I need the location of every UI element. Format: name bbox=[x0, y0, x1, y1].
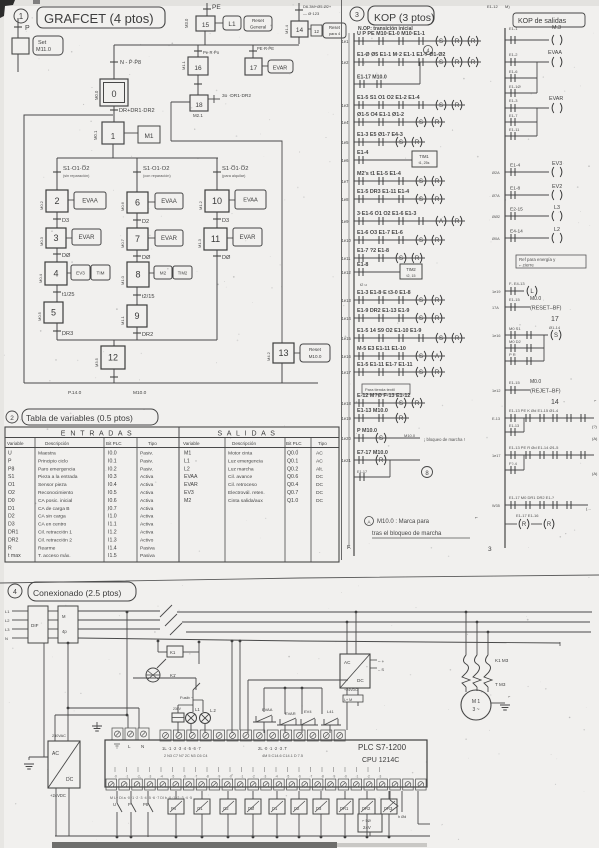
svg-text:R: R bbox=[435, 370, 440, 376]
svg-text:U P PE M10·E1-0 M10·E1-1: U P PE M10·E1-0 M10·E1-1 bbox=[357, 31, 425, 37]
svg-text:·4: ·4 bbox=[160, 775, 163, 779]
transition D3 below step 2 bbox=[56, 212, 58, 228]
svg-text:t2 u: t2 u bbox=[360, 282, 367, 287]
svg-text:15: 15 bbox=[202, 22, 210, 29]
svg-text:M0.0: M0.0 bbox=[530, 379, 541, 385]
svg-text:PLC S7-1200: PLC S7-1200 bbox=[358, 743, 407, 752]
svg-text:R: R bbox=[435, 120, 440, 126]
branch down to step 17 with transition PE R PE bbox=[252, 45, 254, 58]
svg-text:M-5 E3 E1-11 E1-10: M-5 E3 E1-11 E1-10 bbox=[357, 346, 406, 352]
svg-text:1: 1 bbox=[19, 12, 24, 21]
svg-text:KOP de salidas: KOP de salidas bbox=[518, 18, 567, 25]
auto contact symbol circle bbox=[146, 668, 160, 682]
svg-text:Sensor pieza: Sensor pieza bbox=[38, 482, 67, 488]
svg-text:S: S bbox=[439, 60, 443, 66]
extra wire drop to terminal 4 bbox=[231, 640, 234, 643]
svg-text:E1-13 PE R Ød E1-14 Ø1-5: E1-13 PE R Ød E1-14 Ø1-5 bbox=[509, 445, 559, 450]
svg-text:+24VDC: +24VDC bbox=[50, 793, 66, 798]
svg-text:·1: ·1 bbox=[241, 775, 244, 779]
svg-text:17A: 17A bbox=[492, 306, 499, 310]
wire from K1 down and across bbox=[133, 677, 196, 679]
svg-text:R: R bbox=[435, 179, 440, 185]
svg-text:M.3: M.3 bbox=[552, 25, 561, 31]
svg-text:1e6: 1e6 bbox=[342, 158, 350, 163]
K1 contactor coil circuit bbox=[157, 640, 160, 643]
svg-text:Tipo: Tipo bbox=[318, 441, 327, 446]
svg-text:Alt.: Alt. bbox=[316, 466, 323, 472]
svg-text:M0.0: M0.0 bbox=[530, 296, 541, 302]
svg-text:E1-7: E1-7 bbox=[509, 113, 518, 118]
svg-text:S: S bbox=[379, 436, 383, 442]
svg-text:R: R bbox=[435, 238, 440, 244]
motor branch taps bbox=[465, 611, 468, 614]
section divider vertical line bbox=[341, 0, 343, 560]
svg-text:M0.2: M0.2 bbox=[39, 200, 44, 210]
svg-text:K1': K1' bbox=[170, 673, 176, 678]
svg-text:Variable: Variable bbox=[183, 441, 200, 446]
svg-text:DØ: DØ bbox=[222, 255, 231, 261]
svg-text:2L ·0 ·1 ·2 ·3 .T: 2L ·0 ·1 ·2 ·3 .T bbox=[258, 746, 287, 751]
svg-text:DR2: DR2 bbox=[362, 806, 371, 811]
svg-text:Activa: Activa bbox=[140, 482, 154, 488]
svg-text:13: 13 bbox=[278, 348, 288, 358]
svg-text:AC: AC bbox=[316, 451, 323, 457]
svg-text:R: R bbox=[455, 39, 460, 45]
svg-text:Q0.2: Q0.2 bbox=[287, 466, 298, 472]
svg-text:S: S bbox=[419, 197, 423, 203]
svg-text:CA de carga B: CA de carga B bbox=[38, 506, 70, 512]
svg-text:Electrovál. reten.: Electrovál. reten. bbox=[228, 490, 265, 496]
branch 2 condition S1 O1 O2 bbox=[136, 158, 138, 192]
bottom scan shadow band bbox=[52, 842, 337, 848]
svg-text:T M3: T M3 bbox=[495, 682, 506, 687]
svg-text:Cinta salida/aux: Cinta salida/aux bbox=[228, 498, 263, 504]
neutral line bbox=[78, 638, 560, 643]
svg-text:(RESET–BF): (RESET–BF) bbox=[530, 306, 562, 312]
svg-text:Q0.7: Q0.7 bbox=[287, 490, 298, 496]
right supply bottom terminals bbox=[346, 688, 348, 695]
transition DR2 below step 9 bbox=[136, 327, 138, 340]
svg-text:·0: ·0 bbox=[229, 775, 232, 779]
svg-text:t max: t max bbox=[8, 553, 21, 559]
svg-text:D2: D2 bbox=[8, 514, 15, 520]
svg-text:DC: DC bbox=[66, 777, 74, 783]
svg-text:0: 0 bbox=[111, 89, 116, 99]
svg-text:S: S bbox=[399, 256, 403, 262]
transition t1/25 below step 4 bbox=[56, 285, 58, 302]
input sensor boxes row bbox=[168, 799, 184, 814]
svg-text:9: 9 bbox=[134, 311, 139, 321]
svg-text:EVAA: EVAA bbox=[184, 474, 198, 480]
svg-text:EV3: EV3 bbox=[76, 271, 85, 276]
svg-text:TIM1: TIM1 bbox=[419, 154, 429, 159]
svg-text:O2: O2 bbox=[8, 490, 15, 496]
valve wires to terminals bbox=[263, 722, 265, 733]
svg-text:F.: F. bbox=[347, 545, 352, 551]
svg-text:L41: L41 bbox=[327, 709, 334, 714]
transition D0 below step 11 bbox=[216, 250, 218, 340]
svg-text:M2.1: M2.1 bbox=[193, 113, 203, 118]
svg-text:EVAR: EVAR bbox=[184, 482, 198, 488]
svg-text:Cil. retracción 1: Cil. retracción 1 bbox=[38, 530, 72, 536]
svg-text:S: S bbox=[399, 140, 403, 146]
svg-text:M10.0 : Marca para: M10.0 : Marca para bbox=[377, 519, 430, 525]
svg-text:TIM2: TIM2 bbox=[178, 271, 188, 276]
svg-text:17: 17 bbox=[250, 65, 258, 72]
svg-text:·1: ·1 bbox=[126, 775, 129, 779]
svg-text:DC: DC bbox=[316, 498, 324, 504]
PLC bottom terminal strip bbox=[106, 779, 117, 790]
footnote M10.0 marca para bbox=[365, 517, 374, 526]
transition N-P.P8 above step 0 bbox=[110, 61, 118, 63]
svg-text:1e12: 1e12 bbox=[492, 389, 500, 393]
section 4 marker and title Conexionado (2.5 ptos) bbox=[8, 584, 22, 598]
svg-text:1e15: 1e15 bbox=[342, 336, 352, 341]
svg-text:·6: ·6 bbox=[183, 775, 186, 779]
svg-text:S A L I D A S: S A L I D A S bbox=[218, 431, 277, 438]
svg-text:Q0.4: Q0.4 bbox=[287, 482, 298, 488]
svg-text:U: U bbox=[8, 451, 12, 457]
svg-text:E1-11: E1-11 bbox=[509, 127, 520, 132]
svg-text:⌐ cierre: ⌐ cierre bbox=[519, 263, 534, 268]
svg-text:Activa: Activa bbox=[140, 498, 154, 504]
svg-text:E1-9 DR2 E1-13 E1-9: E1-9 DR2 E1-13 E1-9 bbox=[357, 308, 409, 314]
svg-text:Reset: Reset bbox=[329, 25, 341, 30]
step 14 transition label bbox=[298, 3, 300, 21]
svg-text:·9: ·9 bbox=[333, 775, 336, 779]
svg-text:E1-8: E1-8 bbox=[357, 262, 368, 268]
svg-text:EVAR: EVAR bbox=[273, 66, 288, 72]
svg-text:A: A bbox=[367, 520, 370, 525]
svg-text:4p: 4p bbox=[62, 629, 67, 634]
svg-text:6: 6 bbox=[135, 198, 140, 208]
svg-text:– +: – + bbox=[378, 659, 385, 664]
svg-text:M0.5: M0.5 bbox=[37, 311, 42, 321]
svg-text:Motor cinta: Motor cinta bbox=[228, 451, 252, 457]
svg-text:4M 5 C14.6 C14.1 D 7.5: 4M 5 C14.6 C14.1 D 7.5 bbox=[262, 754, 303, 758]
svg-text:S1: S1 bbox=[8, 474, 14, 480]
svg-text:3: 3 bbox=[53, 233, 58, 243]
wire to PLC L N terminals bbox=[55, 714, 127, 716]
PLC power terminal strip bbox=[112, 728, 123, 740]
svg-text:A: A bbox=[435, 354, 439, 360]
svg-text:1e13: 1e13 bbox=[342, 298, 352, 303]
svg-text:I1.3: I1.3 bbox=[108, 537, 117, 543]
svg-text:·8: ·8 bbox=[321, 775, 324, 779]
svg-text:D3: D3 bbox=[62, 218, 69, 224]
svg-text:EVAR: EVAR bbox=[161, 236, 178, 242]
svg-text:8: 8 bbox=[135, 270, 140, 280]
svg-text:A: A bbox=[439, 219, 443, 225]
svg-text:N - P̄·P̄8: N - P̄·P̄8 bbox=[120, 59, 141, 66]
differential breaker DIF bbox=[28, 606, 48, 643]
svg-text:Luz marcha: Luz marcha bbox=[228, 466, 254, 472]
svg-text:1e19: 1e19 bbox=[342, 416, 352, 421]
svg-text:·2: ·2 bbox=[367, 775, 370, 779]
svg-text:Set: Set bbox=[38, 40, 47, 46]
svg-text:230VAC: 230VAC bbox=[52, 734, 66, 738]
svg-text:S: S bbox=[419, 179, 423, 185]
svg-text:P: P bbox=[25, 25, 30, 32]
svg-text:Activa: Activa bbox=[140, 514, 154, 520]
svg-text:Tipo: Tipo bbox=[148, 441, 157, 446]
section 1 marker (circled 1) bbox=[14, 9, 28, 23]
svg-text:DR2: DR2 bbox=[8, 537, 18, 543]
svg-text:t2, 15: t2, 15 bbox=[407, 274, 416, 278]
svg-text:AC: AC bbox=[344, 660, 351, 665]
svg-text:E1-5 S1 O1 O2 E1-2 E1-4: E1-5 S1 O1 O2 E1-2 E1-4 bbox=[357, 95, 420, 101]
svg-text:DØ: DØ bbox=[142, 255, 151, 261]
svg-text:4: 4 bbox=[53, 269, 58, 279]
svg-text:R: R bbox=[435, 298, 440, 304]
svg-text:DR1: DR1 bbox=[8, 530, 18, 536]
svg-text:R: R bbox=[435, 197, 440, 203]
svg-text:Ø1-14: Ø1-14 bbox=[549, 325, 561, 330]
svg-text:R: R bbox=[522, 522, 527, 528]
rung 1e21 branch bbox=[354, 476, 390, 478]
phase lines to right L1 bbox=[177, 611, 592, 613]
circled 8 note bbox=[422, 467, 433, 478]
svg-text:3·E1-6 O1 O2 E1-6 E1-3: 3·E1-6 O1 O2 E1-6 E1-3 bbox=[357, 211, 416, 217]
motor ground bbox=[491, 702, 505, 704]
svg-text:1e11: 1e11 bbox=[342, 256, 352, 261]
svg-text:E1-6 O3 E1-7 E1-6: E1-6 O3 E1-7 E1-6 bbox=[357, 230, 403, 236]
three phase + neutral distribution lines bbox=[78, 610, 160, 612]
svg-text:Activo: Activo bbox=[140, 537, 154, 543]
svg-text:E1-17 M10.0: E1-17 M10.0 bbox=[357, 75, 387, 81]
svg-text:⌐: ⌐ bbox=[475, 515, 478, 521]
svg-text:Ø0A: Ø0A bbox=[492, 237, 500, 241]
svg-text:1e7: 1e7 bbox=[342, 179, 350, 184]
svg-text:DØ: DØ bbox=[62, 253, 71, 259]
svg-text:230V: 230V bbox=[173, 707, 182, 711]
svg-text:Ø7A: Ø7A bbox=[492, 194, 500, 198]
section divider wavy line bbox=[0, 575, 599, 583]
svg-text:M 1: M 1 bbox=[472, 699, 481, 705]
svg-text:Bit PLC: Bit PLC bbox=[286, 441, 302, 446]
svg-text:E1-13: E1-13 bbox=[509, 424, 519, 428]
svg-text:I0.1: I0.1 bbox=[108, 458, 117, 464]
svg-text:Activa: Activa bbox=[140, 490, 154, 496]
transition t2/15 below step 8 bbox=[136, 287, 138, 305]
transition DR3 below step 5 bbox=[56, 323, 58, 340]
svg-text:M3.0: M3.0 bbox=[184, 18, 189, 28]
svg-text:M1.2: M1.2 bbox=[198, 200, 203, 210]
svg-text:AC: AC bbox=[316, 458, 323, 464]
svg-text:E1-6: E1-6 bbox=[509, 69, 518, 74]
switch wires to bus bbox=[116, 822, 118, 837]
svg-text:KOP (3 ptos): KOP (3 ptos) bbox=[374, 12, 435, 24]
svg-text:PE·R·P̄E: PE·R·P̄E bbox=[257, 46, 274, 51]
svg-text:Cil. retroceso: Cil. retroceso bbox=[228, 482, 257, 488]
svg-text:I1.5: I1.5 bbox=[108, 553, 117, 559]
svg-text:R: R bbox=[415, 140, 420, 146]
svg-text:EVAA: EVAA bbox=[161, 199, 177, 205]
svg-text:1e1: 1e1 bbox=[342, 39, 350, 44]
svg-text:D1: D1 bbox=[272, 806, 278, 811]
section 3 marker and title KOP (3 ptos) bbox=[350, 7, 364, 21]
transition DR DR1 DR2 above step 1 bbox=[110, 109, 118, 111]
svg-text:P4: P4 bbox=[171, 806, 177, 811]
svg-text:M1: M1 bbox=[144, 133, 153, 140]
svg-text:M1.1: M1.1 bbox=[120, 315, 125, 325]
svg-text:S1·O1·O̅2: S1·O1·O̅2 bbox=[63, 165, 89, 172]
svg-text:D6.3M+Ø5.Ø2+: D6.3M+Ø5.Ø2+ bbox=[303, 4, 332, 9]
svg-text:E1-2: E1-2 bbox=[509, 52, 518, 57]
svg-text:2 N3 C7 N7 2C N3 C6 C4: 2 N3 C7 N7 2C N3 C6 C4 bbox=[164, 754, 207, 758]
branch 3 condition S1 nO1 nO2 bbox=[216, 158, 218, 190]
svg-text:2: 2 bbox=[54, 196, 59, 206]
svg-text:Ref para energía y: Ref para energía y bbox=[519, 257, 556, 262]
svg-text:·3: ·3 bbox=[379, 775, 382, 779]
svg-text:11: 11 bbox=[211, 234, 220, 244]
svg-text:Q0.1: Q0.1 bbox=[287, 458, 298, 464]
svg-text:14: 14 bbox=[296, 27, 304, 34]
svg-text:K1: K1 bbox=[170, 650, 176, 655]
svg-text:L2: L2 bbox=[554, 227, 560, 233]
svg-text:Principio ciclo: Principio ciclo bbox=[38, 458, 68, 464]
svg-text:Reconocimiento: Reconocimiento bbox=[38, 490, 73, 496]
svg-text:1e12: 1e12 bbox=[342, 270, 352, 275]
svg-text:I1.4: I1.4 bbox=[108, 545, 117, 551]
svg-text:·3: ·3 bbox=[149, 775, 152, 779]
svg-text:O1: O1 bbox=[197, 806, 203, 811]
svg-text:General: General bbox=[250, 25, 266, 30]
svg-text:E1-3 E1-8·E t3-0 E1-8: E1-3 E1-8·E t3-0 E1-8 bbox=[357, 290, 411, 296]
ground symbol left supply bbox=[24, 763, 34, 765]
svg-text:I0.0: I0.0 bbox=[108, 451, 117, 457]
svg-text:M2's t1 E1-5 E1-4: M2's t1 E1-5 E1-4 bbox=[357, 171, 401, 177]
svg-text:DIF: DIF bbox=[31, 623, 39, 628]
svg-text:I1.0: I1.0 bbox=[108, 514, 117, 520]
svg-text:1L ·1 ·2 ·3 ·4 ·5 ·6 ·7: 1L ·1 ·2 ·3 ·4 ·5 ·6 ·7 bbox=[162, 746, 201, 751]
svg-text:PE: PE bbox=[212, 4, 221, 11]
phase line L2 bbox=[182, 621, 590, 623]
svg-text:P.14.0: P.14.0 bbox=[68, 390, 82, 396]
svg-text:M4.2: M4.2 bbox=[266, 351, 271, 361]
svg-text:3o ·DR1·DR2: 3o ·DR1·DR2 bbox=[222, 93, 251, 99]
wire step14 down to line bbox=[298, 37, 300, 44]
branch contact 2 bbox=[505, 469, 524, 471]
wire step13 to bottom loop bbox=[281, 363, 283, 383]
note box Para tienda textil bbox=[362, 384, 410, 394]
svg-text:R: R bbox=[415, 256, 420, 262]
right supply output marks bbox=[370, 659, 377, 661]
svg-text:·0: ·0 bbox=[114, 775, 117, 779]
svg-text:L3: L3 bbox=[554, 205, 560, 211]
title GRAFCET (4 ptos) bbox=[37, 7, 165, 28]
svg-text:M0.3: M0.3 bbox=[39, 236, 44, 246]
svg-text:3: 3 bbox=[488, 546, 492, 553]
svg-text:E2-15: E2-15 bbox=[510, 207, 523, 213]
svg-text:t1, 25s: t1, 25s bbox=[419, 161, 430, 165]
svg-text:¡ bloqueo de marcha !: ¡ bloqueo de marcha ! bbox=[424, 437, 465, 442]
svg-text:Reset: Reset bbox=[309, 347, 322, 352]
svg-text:S: S bbox=[399, 401, 403, 407]
svg-text:1e19: 1e19 bbox=[492, 290, 500, 294]
svg-text:P: P bbox=[8, 458, 12, 464]
svg-text:DR3: DR3 bbox=[62, 331, 73, 337]
svg-text:Descripción: Descripción bbox=[45, 441, 69, 446]
transition D3 below step 10 bbox=[216, 212, 218, 228]
svg-text:para 4: para 4 bbox=[329, 31, 341, 36]
svg-text:CA sin carga: CA sin carga bbox=[38, 514, 66, 520]
svg-text:Luz emergencia: Luz emergencia bbox=[228, 458, 263, 464]
svg-text:TIM2: TIM2 bbox=[406, 267, 416, 272]
svg-text:Cil. avance: Cil. avance bbox=[228, 474, 252, 480]
svg-text:L+ M: L+ M bbox=[344, 698, 352, 702]
svg-text:M11.0: M11.0 bbox=[36, 47, 51, 53]
svg-text:·2: ·2 bbox=[137, 775, 140, 779]
svg-text:E7-17 M10.0: E7-17 M10.0 bbox=[357, 450, 388, 456]
init branch: transition PE bbox=[206, 3, 208, 16]
svg-text:R: R bbox=[379, 458, 384, 464]
24V distribution wire to outputs bbox=[346, 702, 348, 730]
svg-text:Q0.0: Q0.0 bbox=[287, 451, 298, 457]
svg-text:E1-4: E1-4 bbox=[510, 163, 520, 169]
PLC ground terminal symbol bbox=[92, 725, 102, 727]
branch down to step 16 with transition Pe R Po bbox=[197, 45, 199, 57]
tap dot N down to left AC/DC bbox=[67, 642, 70, 645]
svg-text:E1-17 E1-16: E1-17 E1-16 bbox=[516, 513, 539, 518]
svg-text:AC: AC bbox=[52, 751, 59, 757]
svg-text:P M10.0: P M10.0 bbox=[357, 428, 377, 434]
svg-text:1e4: 1e4 bbox=[342, 120, 350, 125]
svg-text:DC: DC bbox=[357, 678, 364, 683]
branch contact E1-13b bbox=[505, 431, 524, 433]
svg-text:·7: ·7 bbox=[310, 775, 313, 779]
left ladder inner guide rail bbox=[348, 33, 350, 548]
svg-text:R: R bbox=[435, 316, 440, 322]
svg-text:1e10: 1e10 bbox=[342, 238, 352, 243]
svg-text:L1: L1 bbox=[5, 609, 10, 614]
svg-text:1e17: 1e17 bbox=[342, 370, 352, 375]
svg-text:Q0.6: Q0.6 bbox=[287, 474, 298, 480]
svg-text:O2: O2 bbox=[223, 806, 229, 811]
AC DC 230/24 supply left box bbox=[48, 741, 80, 788]
wire 18 to step13 branch line bbox=[171, 101, 190, 103]
circled 4 note bbox=[424, 46, 433, 55]
svg-text:EVAR: EVAR bbox=[549, 96, 563, 102]
svg-text:·0: ·0 bbox=[344, 775, 347, 779]
svg-text:⌐ 5Ø: ⌐ 5Ø bbox=[362, 818, 371, 823]
svg-text:S: S bbox=[554, 333, 558, 339]
svg-text:E1-8: E1-8 bbox=[510, 186, 520, 192]
svg-text:Ø1-5 O4 E1-1 Ø1-2: Ø1-5 O4 E1-1 Ø1-2 bbox=[357, 112, 404, 118]
svg-text:EV2: EV2 bbox=[552, 184, 562, 190]
svg-text:M1.0: M1.0 bbox=[120, 275, 125, 285]
transition D2 below step 6 bbox=[136, 213, 138, 228]
svg-text:O1: O1 bbox=[8, 482, 15, 488]
section 2 marker and title Tabla de variables bbox=[6, 411, 18, 423]
svg-text:1e18: 1e18 bbox=[342, 401, 352, 406]
tap dot L1 to PLC supply bbox=[126, 611, 129, 614]
svg-text:I1.2: I1.2 bbox=[108, 530, 117, 536]
svg-text:M10.0: M10.0 bbox=[309, 354, 322, 359]
svg-text:Reset: Reset bbox=[252, 18, 265, 23]
svg-text:M3.5: M3.5 bbox=[94, 357, 99, 367]
svg-text:E1-7 ?2 E1-8: E1-7 ?2 E1-8 bbox=[357, 248, 389, 254]
svg-text:E1-1Ø: E1-1Ø bbox=[509, 84, 521, 89]
svg-text:+24VDC: +24VDC bbox=[344, 688, 358, 692]
svg-text:F- E4-13: F- E4-13 bbox=[509, 281, 525, 286]
svg-text:·6: ·6 bbox=[298, 775, 301, 779]
svg-text:Maestra: Maestra bbox=[38, 451, 56, 457]
svg-text:·9: ·9 bbox=[218, 775, 221, 779]
divergence line for 3 branches bbox=[112, 144, 114, 158]
svg-text:1e2: 1e2 bbox=[342, 60, 350, 65]
svg-text:E1-3 E5 Ø1-7 E4-3: E1-3 E5 Ø1-7 E4-3 bbox=[357, 132, 403, 138]
